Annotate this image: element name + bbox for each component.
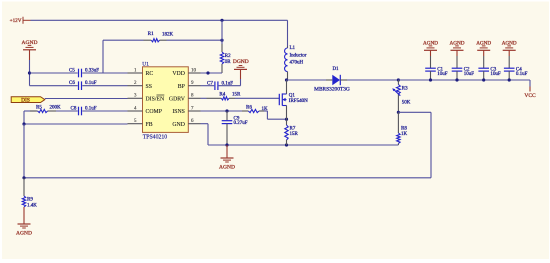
junction AGND/pin1	[28, 71, 31, 74]
svg-text:VCC: VCC	[524, 93, 536, 99]
junction C1	[429, 78, 432, 81]
wire R1 left vertical	[102, 40, 104, 73]
junction R7 bottom	[285, 143, 288, 146]
svg-text:R2: R2	[225, 54, 231, 59]
svg-text:RC: RC	[146, 71, 154, 77]
junction out/R3	[397, 78, 400, 81]
wire rail to L1	[287, 20, 289, 46]
junction C3	[482, 78, 485, 81]
junction pin10	[206, 71, 209, 74]
svg-text:AGND: AGND	[476, 41, 491, 47]
wire pin7 jog	[264, 111, 287, 119]
svg-text:C5: C5	[69, 68, 75, 73]
svg-text:ISNS: ISNS	[172, 109, 185, 115]
svg-text:+12V: +12V	[10, 18, 22, 24]
wire R9 bottom lead	[23, 207, 25, 224]
inductor L1	[285, 46, 307, 80]
svg-text:COMP: COMP	[146, 109, 162, 115]
svg-text:15R: 15R	[290, 132, 299, 137]
resistor R7	[285, 125, 299, 140]
svg-text:SS: SS	[146, 84, 152, 90]
junction C2	[455, 78, 458, 81]
capacitor C2 with AGND	[450, 41, 475, 81]
svg-text:IRF540N: IRF540N	[289, 99, 308, 104]
svg-text:AGND: AGND	[502, 41, 517, 47]
svg-text:DIS/EN: DIS/EN	[146, 96, 165, 102]
wire R7 bottom lead	[286, 140, 288, 145]
wire output row	[398, 79, 530, 81]
svg-text:AGND: AGND	[423, 41, 438, 47]
svg-text:R7: R7	[290, 126, 296, 131]
capacitor C3 with AGND	[476, 41, 501, 81]
resistor R1	[144, 32, 174, 42]
transistor Q1 IRF540N	[279, 80, 308, 119]
svg-text:U1: U1	[142, 61, 149, 67]
junction drain node	[285, 78, 288, 81]
svg-text:1.4K: 1.4K	[27, 203, 37, 208]
wire drain to D1	[287, 79, 333, 81]
capacitor C1 with AGND	[423, 41, 448, 81]
svg-text:200K: 200K	[50, 105, 62, 110]
wire pin1 row b	[82, 72, 127, 74]
wire pin6 row	[201, 124, 209, 145]
svg-text:Inductor: Inductor	[290, 54, 307, 59]
ground DGND	[233, 59, 249, 69]
capacitor C9	[222, 116, 248, 126]
svg-text:R1: R1	[148, 32, 154, 37]
wire FB row	[24, 123, 128, 125]
wire pin8 row b	[235, 97, 279, 99]
svg-text:DGND: DGND	[233, 59, 249, 65]
wire C9 bottom lead	[226, 124, 228, 145]
wire R8 bottom	[397, 144, 399, 146]
wire pin10 row	[201, 72, 223, 74]
capacitor C8	[71, 106, 97, 115]
wire pin2 row b	[82, 85, 127, 87]
power port +12V	[10, 17, 31, 24]
svg-text:0.1uF: 0.1uF	[516, 72, 528, 77]
svg-text:470uH: 470uH	[290, 61, 304, 66]
junction C4	[508, 78, 511, 81]
resistor R2	[220, 52, 231, 65]
svg-text:10: 10	[191, 68, 197, 73]
ground AGND top-left	[22, 40, 38, 60]
wire ground rail	[208, 144, 398, 146]
wire R3 tap right	[398, 112, 431, 178]
svg-text:R3: R3	[402, 86, 408, 91]
svg-text:10uF: 10uF	[437, 72, 448, 77]
junction R9 top	[22, 176, 25, 179]
wire pin3 row	[45, 98, 128, 100]
svg-text:FB: FB	[146, 122, 153, 128]
resistor R8	[397, 126, 408, 143]
wire R8 top lead	[397, 112, 399, 133]
wire COMP row left	[24, 110, 37, 112]
ground AGND middle	[219, 158, 235, 170]
wire pin2 row a	[30, 85, 78, 87]
svg-text:10uF: 10uF	[490, 72, 501, 77]
junction rail/R2	[220, 19, 223, 22]
wire DGND stub	[240, 69, 242, 85]
capacitor C6	[69, 81, 97, 90]
svg-text:182K: 182K	[162, 33, 174, 38]
svg-text:AGND: AGND	[450, 41, 465, 47]
junction R1/R2	[220, 39, 223, 42]
svg-text:L1: L1	[290, 46, 296, 51]
wire R5 corner down	[23, 111, 25, 124]
svg-text:Q1: Q1	[289, 93, 296, 98]
svg-text:VDD: VDD	[172, 71, 185, 77]
diode D1	[314, 67, 350, 93]
svg-text:D1: D1	[332, 67, 339, 72]
svg-text:R6: R6	[246, 105, 252, 110]
port DIS	[11, 97, 45, 104]
wire AGND stub mid	[226, 145, 228, 158]
junction source/ISNS	[285, 118, 288, 121]
svg-text:GDRV: GDRV	[169, 96, 186, 102]
wire pin8 row a	[201, 97, 207, 99]
wire R1 row right	[167, 39, 223, 41]
ground AGND bottom-left	[16, 224, 32, 236]
wire +12V rail	[31, 19, 288, 21]
capacitor C4 with AGND	[502, 41, 528, 81]
junction ISNS/C9	[225, 109, 228, 112]
svg-text:AGND: AGND	[219, 164, 235, 170]
svg-text:0R: 0R	[225, 60, 232, 65]
junction C9/AGND	[225, 143, 228, 146]
svg-text:C7: C7	[207, 82, 213, 87]
wire COMP row mid	[56, 110, 78, 112]
wire AGND rail	[29, 60, 31, 86]
svg-text:R9: R9	[27, 198, 33, 203]
resistor R5	[30, 105, 61, 112]
svg-text:R4: R4	[219, 92, 225, 97]
svg-text:AGND: AGND	[16, 230, 32, 236]
svg-text:R5: R5	[36, 105, 42, 110]
svg-text:TPS40210: TPS40210	[143, 135, 168, 141]
svg-text:AGND: AGND	[22, 40, 38, 46]
svg-text:DIS: DIS	[21, 98, 30, 104]
svg-text:1K: 1K	[401, 132, 408, 137]
svg-text:GND: GND	[172, 122, 185, 128]
svg-text:MBRS3200T3G: MBRS3200T3G	[314, 87, 350, 93]
resistor R6	[242, 105, 268, 112]
junction FB	[22, 122, 25, 125]
svg-text:R8: R8	[401, 126, 407, 131]
svg-text:C8: C8	[71, 106, 77, 111]
svg-text:15R: 15R	[232, 93, 241, 98]
wire pin7 row a	[201, 110, 249, 112]
capacitor C5	[69, 68, 99, 77]
resistor R9	[22, 196, 37, 208]
wire pin9 row a	[201, 85, 215, 87]
wire R9 top lead	[23, 178, 25, 196]
potentiometer R3	[392, 80, 411, 112]
svg-text:BP: BP	[178, 84, 185, 90]
wire pin9 row b	[219, 85, 241, 87]
wire C9 top lead	[226, 111, 228, 120]
capacitor C7	[207, 81, 233, 90]
resistor R4	[207, 92, 242, 100]
power port VCC	[524, 80, 536, 99]
wire pin1 row a	[30, 72, 78, 74]
wire R2 bottom	[221, 64, 223, 73]
wire R7 top lead	[286, 119, 288, 125]
svg-text:50K: 50K	[402, 100, 411, 105]
wire D1 to out	[340, 79, 398, 81]
wire R2 top	[221, 20, 223, 52]
op-amp U1 TPS40210	[128, 61, 201, 140]
wire FB rail down	[23, 124, 25, 178]
junction R3/R8	[397, 111, 400, 114]
wire COMP row right	[82, 110, 127, 112]
wire FB long bottom	[24, 177, 431, 179]
svg-text:0.27uF: 0.27uF	[234, 121, 248, 126]
svg-text:10uF: 10uF	[464, 72, 475, 77]
svg-text:C6: C6	[69, 81, 75, 86]
wire R1 row left	[103, 39, 144, 41]
